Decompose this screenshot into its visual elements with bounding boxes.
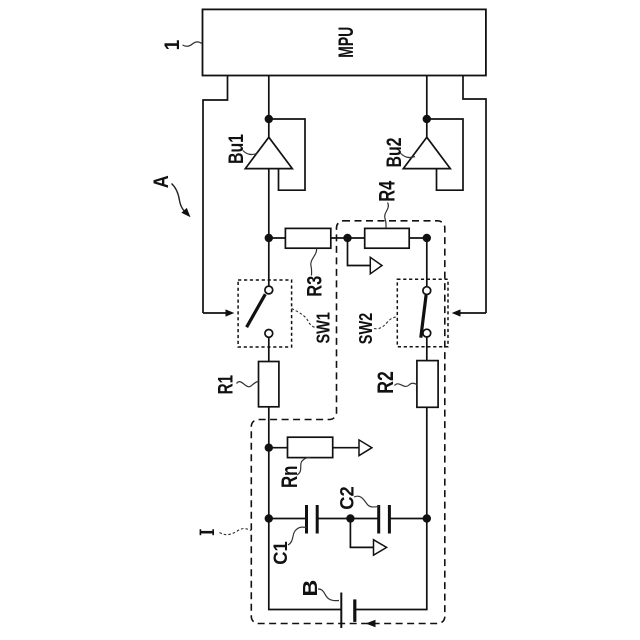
- wire: control to SW1: [203, 312, 226, 314]
- wire: mid node ground stub: [348, 238, 371, 266]
- op-amp buffer Bu2: [403, 137, 450, 168]
- wire: MPU to Bu1: [268, 76, 270, 137]
- svg-text:C2: C2: [337, 486, 358, 510]
- wire: SW2 to R2: [426, 337, 428, 360]
- wire: battery to R2 column: [355, 519, 427, 610]
- switch SW1 bottom contact: [265, 330, 273, 338]
- wire: Bu1 feedback loop: [269, 119, 305, 190]
- leader for SW2 (dashed): [374, 317, 397, 329]
- switch SW2 bottom contact: [423, 329, 431, 337]
- leader for R4: [385, 203, 389, 228]
- arrowhead on loop bottom edge: [366, 620, 376, 627]
- leader for Bu2: [401, 154, 415, 158]
- wire: Rn to ground: [333, 447, 359, 449]
- node dot Rn: [265, 444, 273, 452]
- leader for Rn: [297, 458, 311, 476]
- wire: mid node to C2: [350, 518, 378, 520]
- switch SW2 blade: [421, 295, 426, 338]
- wire: node to C1: [269, 518, 307, 520]
- svg-text:Bu2: Bu2: [383, 138, 406, 168]
- ground symbol at R3/R4 node: [370, 257, 382, 274]
- leader for I (dashed): [220, 529, 252, 535]
- leader for SW1 (dashed): [292, 309, 317, 328]
- leader for label 1: [183, 42, 203, 46]
- svg-text:Bu1: Bu1: [225, 134, 248, 164]
- resistor Rn: [288, 437, 333, 457]
- wire: node to Rn: [269, 447, 288, 449]
- wire: Rn node down to C1 node: [268, 448, 270, 519]
- wire: Bu2 feedback loop: [427, 119, 463, 190]
- ground symbol at Rn: [359, 440, 372, 456]
- svg-text:R2: R2: [373, 371, 398, 394]
- wire: mid node to R4: [348, 237, 365, 239]
- leader arrow for A: [172, 184, 185, 212]
- ground symbol at C mid: [374, 540, 387, 556]
- wire: C1 node down to battery: [269, 519, 342, 610]
- MPU U1 box: [203, 9, 486, 75]
- svg-text:SW2: SW2: [356, 313, 376, 345]
- switch SW2 dashed box: [397, 279, 448, 347]
- wire: Bu1 input down to R3 node: [268, 169, 270, 286]
- op-amp buffer Bu1: [245, 137, 292, 168]
- wire: MPU to Bu2: [426, 76, 428, 137]
- svg-text:SW1: SW1: [314, 312, 334, 344]
- wire: SW1 to R1: [268, 337, 270, 361]
- wire: mid node ground stub: [350, 519, 373, 548]
- wire: C1 to mid node: [317, 518, 350, 520]
- switch SW1 top contact: [265, 286, 273, 294]
- wire: node to R3: [269, 237, 286, 239]
- battery B short plate: [353, 599, 356, 622]
- svg-text:R1: R1: [215, 375, 238, 395]
- leader for R3: [311, 249, 317, 276]
- leader for R1: [237, 382, 259, 387]
- svg-text:MPU: MPU: [335, 27, 358, 58]
- svg-text:R3: R3: [304, 276, 327, 297]
- wire: R4 to Bu2 node: [409, 237, 427, 239]
- wire: control to SW2: [461, 312, 487, 314]
- resistor R3: [285, 228, 330, 248]
- switch SW1 dashed box: [238, 280, 292, 347]
- capacitor C1: [305, 505, 308, 534]
- battery B long plate: [340, 593, 342, 629]
- leader for C2: [354, 496, 379, 507]
- switch SW2 top contact: [423, 287, 431, 295]
- arrowhead into SW2: [452, 309, 461, 316]
- resistor R2: [417, 361, 438, 408]
- svg-text:R4: R4: [375, 180, 400, 201]
- label I: [200, 529, 214, 535]
- node dot C1 left: [265, 514, 273, 522]
- node dot R3/R4 mid: [343, 234, 351, 242]
- leader for C1: [288, 527, 307, 545]
- wire: R2 down to C2 node: [426, 407, 428, 518]
- wire: Bu2 node into SW2: [426, 238, 428, 287]
- wire: R3 to mid node: [331, 237, 348, 239]
- svg-text:1: 1: [161, 39, 184, 50]
- svg-text:B: B: [300, 580, 322, 597]
- wire: MPU right control pin step: [463, 76, 486, 313]
- arrowhead into SW1: [226, 309, 235, 316]
- svg-text:A: A: [150, 175, 173, 188]
- wire: R1 down to Rn node: [268, 407, 270, 448]
- node dot Bu1 output: [265, 115, 273, 123]
- wire: C2 to right node: [389, 518, 426, 520]
- leader for B: [318, 589, 339, 601]
- switch SW1 blade: [247, 294, 266, 327]
- capacitor C2: [377, 505, 380, 534]
- leader for Bu1: [243, 151, 257, 155]
- node dot Bu2 output: [423, 115, 431, 123]
- node dot C2 right: [423, 514, 431, 522]
- leader for R2: [395, 383, 417, 386]
- wire: MPU left control pin step: [203, 76, 228, 313]
- resistor R4: [365, 228, 410, 248]
- svg-text:Rn: Rn: [277, 466, 302, 489]
- dashed current loop I: [251, 221, 444, 624]
- resistor R1: [259, 362, 279, 407]
- node dot R3 left: [265, 234, 273, 242]
- node dot R4 right: [423, 234, 431, 242]
- node dot C mid: [346, 514, 354, 522]
